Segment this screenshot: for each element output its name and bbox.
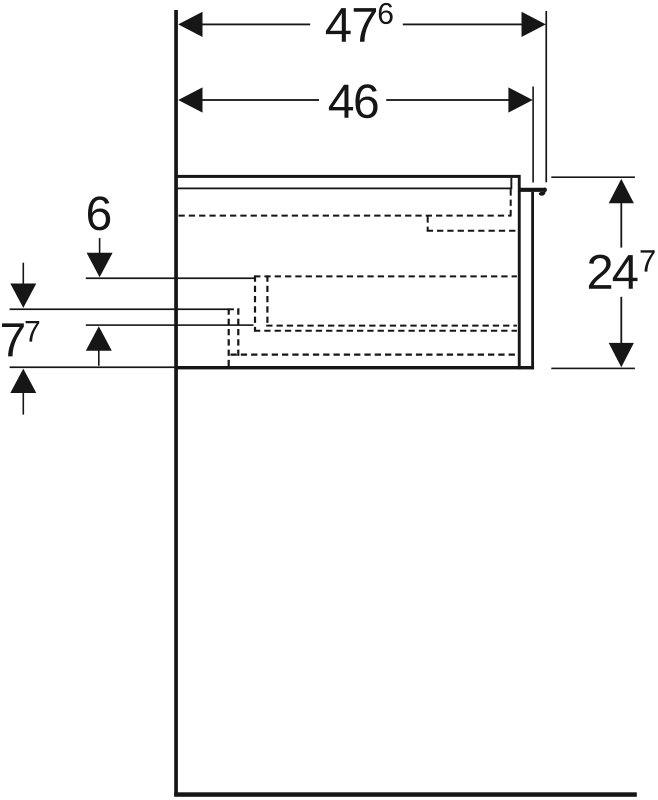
dim label 47 <box>326 8 351 42</box>
top panel inner corner vertical <box>510 178 512 189</box>
wall line <box>174 10 178 796</box>
dim label 47 superscript 6 <box>379 3 393 24</box>
dim 24.7 top extension line <box>551 176 635 178</box>
reference line C (dim 6 bottom) <box>86 324 254 326</box>
floor line <box>174 792 637 797</box>
dashed drawer top line H3 <box>254 275 517 277</box>
reference line B (dim 7.7 top) <box>10 308 229 310</box>
dim label 6 <box>88 196 110 230</box>
dashed underside line H1 <box>179 215 512 217</box>
dim 24.7 up arrow <box>609 179 634 203</box>
cabinet bottom edge <box>176 366 534 369</box>
dim 46 left arrow <box>178 87 202 112</box>
dashed rail bottom line H2 <box>427 230 518 232</box>
dim 46 line left segment <box>200 99 319 101</box>
dim 7.7 down arrow <box>10 284 36 308</box>
dim label 46 <box>329 85 353 118</box>
dashed siphon box1 left vertical <box>254 275 256 331</box>
dim label 7 <box>2 323 24 356</box>
dim 7.7 stem below <box>23 392 25 414</box>
dashed drawer bottom line H4 <box>266 325 517 327</box>
dim label 24 superscript 7 <box>641 250 655 271</box>
dim label 7 superscript 7 <box>26 321 40 342</box>
dim 46 line right segment <box>386 99 510 101</box>
dim 24.7 line upper segment <box>620 202 622 248</box>
dim 6 stem below <box>98 350 100 366</box>
dim 47.6 right arrow <box>522 12 546 37</box>
cabinet top edge <box>176 175 520 178</box>
dashed bottom line H6 <box>231 354 517 356</box>
dim 6 up arrow <box>86 326 112 350</box>
dim 47.6 line left segment <box>200 24 310 26</box>
dashed siphon box2 left vertical <box>228 308 230 366</box>
washbasin rim drip hook <box>539 192 546 196</box>
dashed siphon box2 top cap <box>228 308 240 310</box>
dashed drawer bottom line H5 <box>254 330 517 332</box>
dim 47.6 line right segment <box>403 24 524 26</box>
dim 7.7 stem above <box>23 263 25 284</box>
dim 24.7 down arrow <box>609 343 634 367</box>
cabinet front edge vertical <box>518 175 521 370</box>
dashed siphon box2 right vertical <box>237 308 239 356</box>
dim 46 right arrow <box>508 87 532 112</box>
dim 24.7 line lower segment <box>620 297 622 344</box>
dim 6 down arrow <box>87 253 113 277</box>
dim 47.6 left arrow <box>178 12 202 37</box>
cabinet top panel underside <box>178 188 511 190</box>
dim label 24 <box>589 255 611 289</box>
dashed siphon box1 right vertical <box>266 275 268 326</box>
reference line D (dim 7.7 bottom) <box>10 366 176 368</box>
reference line A (dim 6 top) <box>86 277 255 279</box>
dashed vertical step <box>427 216 429 231</box>
dim 24.7 bottom extension line <box>551 368 635 370</box>
dim 6 stem above <box>99 238 101 254</box>
dashed vertical below inner corner <box>510 189 512 215</box>
washbasin rim bar <box>520 187 547 192</box>
dim 7.7 up arrow <box>10 369 36 393</box>
dim 46 right extension line <box>532 87 534 183</box>
dim 47.6 right extension line <box>545 11 547 182</box>
drawer front outer face vertical <box>531 192 534 370</box>
